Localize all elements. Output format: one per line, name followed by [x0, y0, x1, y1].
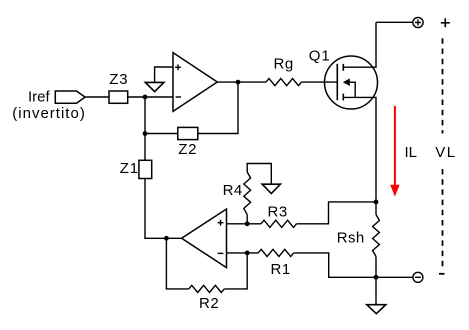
- terminal minus circle: [413, 272, 423, 282]
- svg-text:R2: R2: [199, 295, 219, 312]
- resistor R1: [258, 249, 294, 256]
- wire tag to Z3: [85, 96, 109, 98]
- svg-text:Iref: Iref: [28, 88, 51, 105]
- current arrow IL: [394, 106, 396, 186]
- node U2 + input junction: [245, 221, 250, 226]
- ground at output: [367, 305, 386, 314]
- terminal plus circle: [413, 17, 423, 27]
- Q1 body arrow: [343, 78, 350, 86]
- wire top rail: [376, 21, 413, 23]
- U2 plus sign: [218, 222, 224, 224]
- wire U2 non-inverting input: [227, 223, 262, 225]
- wire feedback down from output: [198, 82, 238, 133]
- node U2 - input junction: [245, 251, 250, 256]
- node Rsh bottom junction: [374, 275, 379, 280]
- wire main vertical lower: [145, 179, 182, 239]
- svg-text:Z2: Z2: [178, 141, 197, 158]
- svg-text:R3: R3: [268, 203, 288, 220]
- wire Rg to gate: [302, 81, 338, 83]
- Q1 body wire: [350, 82, 356, 97]
- resistor Z3: [109, 91, 128, 103]
- Q1 drain channel tick: [342, 64, 344, 71]
- wire R4 top to ground: [247, 164, 271, 185]
- wire ground stem: [375, 277, 377, 304]
- svg-text:Z1: Z1: [120, 160, 139, 177]
- wire R4 bottom stub: [246, 215, 248, 224]
- transistor Q1: [325, 56, 378, 109]
- svg-text:Q1: Q1: [309, 47, 331, 64]
- wire U2 inverting input: [227, 252, 259, 254]
- wire R1 to Rsh bottom: [294, 253, 376, 277]
- svg-text:Rsh: Rsh: [337, 230, 365, 247]
- svg-text:VL: VL: [435, 144, 456, 161]
- svg-text:IL: IL: [405, 144, 418, 161]
- node U2 output junction: [164, 236, 169, 241]
- Q1 drain stub: [343, 22, 376, 67]
- wire Z2 to main vertical: [145, 133, 178, 135]
- U2 minus sign: [218, 252, 224, 254]
- node U1 output junction: [236, 80, 241, 85]
- resistor R3: [261, 220, 297, 227]
- svg-text:Z3: Z3: [109, 71, 128, 88]
- wire Rsh bottom stub: [375, 257, 377, 278]
- wire R2 feedback right leg: [224, 253, 247, 289]
- wire U1 output: [217, 81, 266, 83]
- wire R2 feedback left leg: [166, 238, 188, 289]
- node Z2 junction: [143, 131, 148, 136]
- input tag Iref: [55, 91, 85, 103]
- U1 plus sign: [175, 66, 181, 68]
- label + supply: [441, 22, 450, 24]
- wire to minus terminal: [376, 276, 413, 278]
- resistor R2: [189, 285, 225, 292]
- svg-text:Rg: Rg: [274, 56, 294, 73]
- U1 minus sign: [176, 96, 181, 98]
- wire Rsh top stub: [375, 202, 377, 215]
- svg-text:R1: R1: [271, 261, 291, 278]
- svg-text:R4: R4: [223, 182, 243, 199]
- wire R3 to Rsh top: [297, 202, 377, 224]
- Q1 source stub: [343, 97, 376, 201]
- load dashed line upper: [442, 38, 444, 133]
- resistor R4: [244, 172, 251, 215]
- wire main vertical upper: [144, 97, 146, 160]
- ground at U1 + input: [145, 82, 164, 91]
- op-amp U2: [182, 209, 227, 268]
- resistor Z1: [139, 160, 152, 178]
- Q1 source channel tick: [342, 94, 344, 101]
- resistor Z2: [178, 127, 198, 139]
- resistor Rg: [266, 79, 302, 86]
- ground at R4: [262, 184, 280, 193]
- Q1 gate bar: [336, 64, 338, 100]
- node Rsh top junction: [374, 200, 379, 205]
- node A junction: [143, 95, 148, 100]
- wire U1 + input stub: [155, 67, 173, 82]
- op-amp U1: [173, 53, 217, 112]
- resistor Rsh: [373, 215, 380, 257]
- wire Z3 to op-amp U1 inverting input: [128, 96, 173, 98]
- svg-text:(invertito): (invertito): [12, 105, 86, 122]
- label minus load: [439, 273, 445, 275]
- load dashed line lower: [442, 169, 444, 268]
